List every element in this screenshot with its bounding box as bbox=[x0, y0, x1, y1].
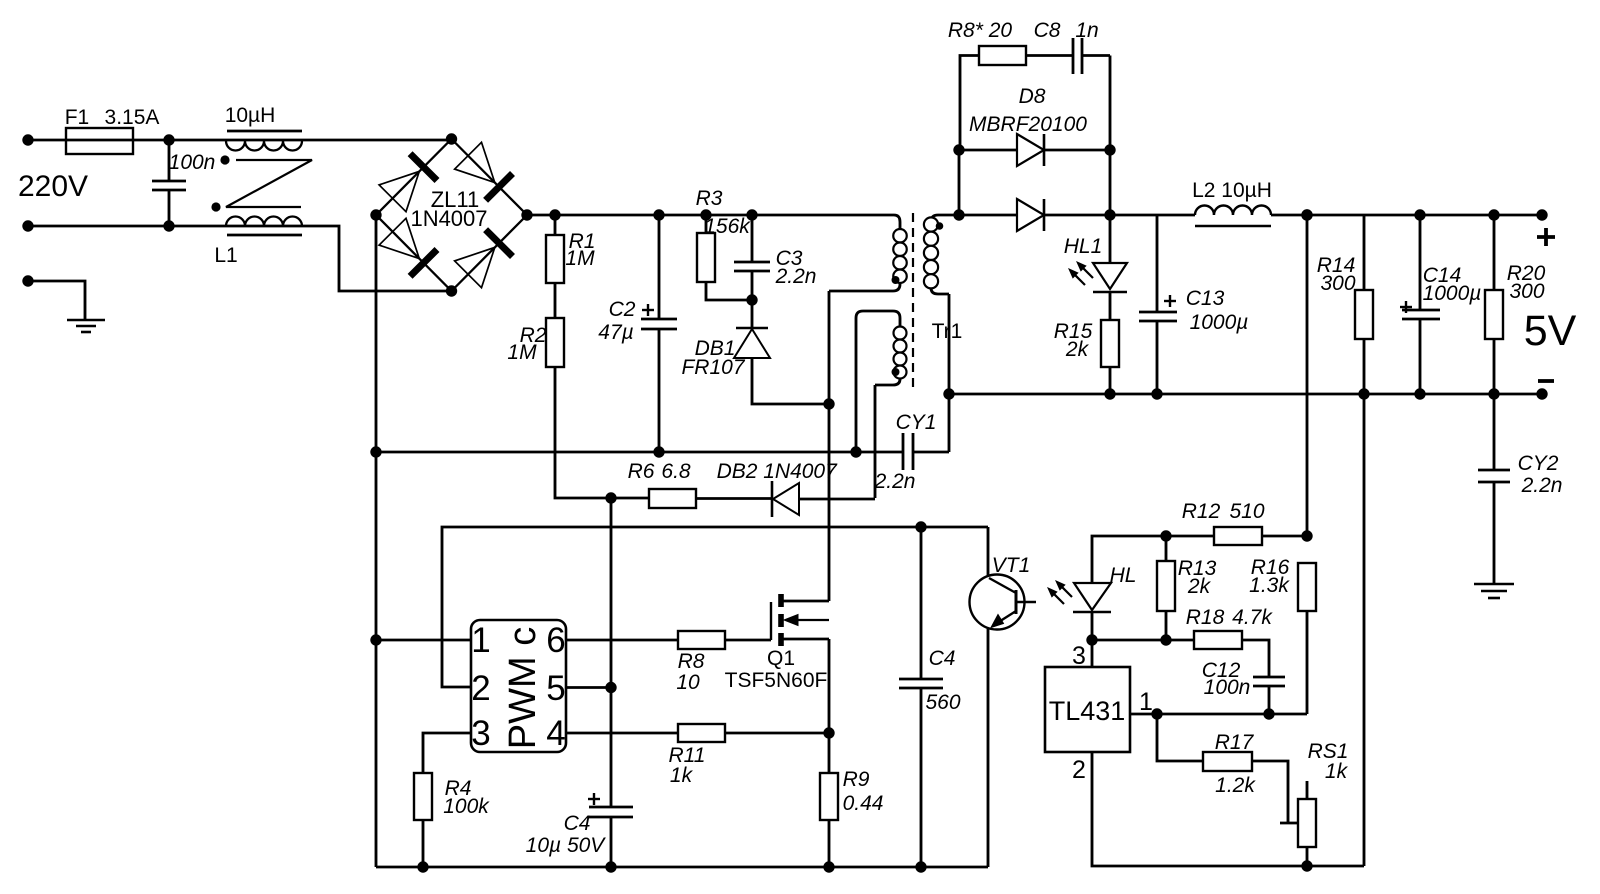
label 1000µ (C14) bbox=[1423, 282, 1482, 305]
label HL1 bbox=[1064, 235, 1103, 258]
capacitor CY1 2.2n bbox=[903, 433, 949, 470]
svg-text:HL: HL bbox=[1110, 564, 1137, 587]
TL431 pin 1 wire bbox=[1130, 713, 1307, 716]
svg-text:L2 10µH: L2 10µH bbox=[1192, 179, 1272, 202]
label L1 bbox=[214, 244, 237, 267]
label 100n (C12) bbox=[1204, 676, 1251, 699]
U1 pin 5 number bbox=[546, 669, 565, 708]
wire R6 to DB2 bbox=[696, 497, 772, 500]
label ZL11 bbox=[431, 187, 480, 212]
node rail/R1 bbox=[549, 209, 560, 220]
wire AC line 2 bbox=[28, 226, 452, 291]
C2 polarity + bbox=[642, 304, 654, 316]
svg-text:PWM c: PWM c bbox=[502, 627, 544, 749]
svg-text:3: 3 bbox=[1072, 642, 1086, 670]
svg-text:R6: R6 bbox=[628, 460, 655, 483]
resistor R11 1k bbox=[678, 724, 829, 742]
transformer Tr1 primary winding bbox=[829, 215, 907, 291]
node AC input phase terminal bbox=[22, 134, 33, 145]
node feedback/C4-560 bbox=[915, 521, 926, 532]
label R8 bbox=[678, 650, 705, 673]
label TL431 bbox=[1049, 696, 1126, 726]
C14 polarity + bbox=[1400, 301, 1412, 313]
resistor R8* 20 (snubber) bbox=[960, 46, 1073, 150]
svg-text:560: 560 bbox=[925, 691, 960, 714]
svg-text:HL1: HL1 bbox=[1064, 235, 1103, 258]
fuse F1 3.15A bbox=[66, 128, 133, 154]
svg-text:1n: 1n bbox=[1075, 19, 1098, 42]
label CY1 bbox=[896, 411, 937, 434]
label R17 bbox=[1215, 731, 1255, 754]
node R6 net / VCC junction bbox=[605, 492, 616, 503]
diode D8 bottom bbox=[940, 199, 1110, 231]
node -5V/R20-CY2 bbox=[1488, 388, 1499, 399]
label 47µ bbox=[598, 321, 633, 344]
wire HL cathode net bbox=[1092, 639, 1194, 642]
node bridge DC plus bbox=[521, 209, 532, 220]
svg-text:C2: C2 bbox=[609, 298, 636, 321]
label HL bbox=[1110, 564, 1137, 587]
resistor R4 100k bbox=[414, 773, 432, 867]
node D8 anode bottom bbox=[953, 209, 964, 220]
label Q1 bbox=[767, 647, 795, 670]
wire HV+ rail bbox=[527, 214, 894, 217]
label PWM c bbox=[502, 627, 544, 749]
node -5V output terminal bbox=[1536, 388, 1547, 399]
svg-text:2.2n: 2.2n bbox=[874, 470, 916, 493]
label C3 bbox=[776, 247, 803, 270]
label R13 bbox=[1178, 557, 1217, 580]
L1 core bbox=[226, 160, 312, 207]
bridge diode D4 (ZL11) bbox=[455, 230, 513, 288]
label 560 bbox=[925, 691, 960, 714]
wire -5V rail bbox=[949, 393, 1542, 396]
TL431 pin 1 number bbox=[1139, 688, 1153, 716]
label 1N4007 (bridge) bbox=[410, 206, 487, 231]
optocoupler light arrows bbox=[1048, 581, 1072, 604]
svg-text:1000µ: 1000µ bbox=[1423, 282, 1482, 305]
node PE terminal bbox=[22, 275, 33, 286]
svg-text:220V: 220V bbox=[18, 170, 88, 203]
node VCC/pin5 bbox=[605, 682, 616, 693]
bridge diode D3 (ZL11) bbox=[379, 218, 437, 276]
diode DB2 1N4007 bbox=[772, 481, 875, 517]
label Tr1 bbox=[932, 320, 963, 343]
label C4 (10µ) bbox=[564, 812, 591, 835]
label R2 bbox=[520, 324, 547, 347]
resistor R15 2k bbox=[1101, 320, 1119, 394]
svg-text:2.2n: 2.2n bbox=[1521, 474, 1563, 497]
U1 pin 6 number bbox=[546, 621, 565, 660]
label R16 bbox=[1251, 556, 1290, 579]
plus output symbol bbox=[1537, 228, 1555, 246]
bridge diode D1 (ZL11) bbox=[379, 154, 437, 212]
resistor R16 1.3k bbox=[1298, 563, 1316, 714]
HL1 light arrows bbox=[1069, 262, 1093, 285]
resistor R1 1M bbox=[546, 215, 564, 318]
node bus/C2 bbox=[653, 446, 664, 457]
wire +5V to R12/R16 bbox=[1306, 215, 1309, 536]
U1 pin 1 number bbox=[471, 621, 490, 660]
L1 phase dot b bbox=[211, 202, 220, 211]
node D8 cathode top bbox=[1104, 144, 1115, 155]
resistor R12 510 bbox=[1214, 527, 1307, 545]
label 2k (R13) bbox=[1187, 575, 1212, 598]
resistor R17 1.2k bbox=[1157, 714, 1297, 823]
node snubber/drain junction bbox=[823, 398, 834, 409]
label F1 bbox=[65, 106, 90, 129]
node HL/pin3 bbox=[1086, 634, 1097, 645]
svg-text:TSF5N60F: TSF5N60F bbox=[725, 669, 828, 692]
TL431 pin 2 wire bbox=[1092, 752, 1364, 866]
node R3/C3 junction bbox=[746, 294, 757, 305]
node bus/left bus bbox=[370, 446, 381, 457]
svg-text:100n: 100n bbox=[1204, 676, 1251, 699]
svg-text:5V: 5V bbox=[1524, 307, 1577, 355]
label RS1 bbox=[1308, 740, 1349, 763]
IC U1 PWM controller box bbox=[471, 620, 566, 752]
svg-text:6.8: 6.8 bbox=[661, 460, 691, 483]
minus output symbol bbox=[1538, 379, 1554, 383]
label DB2 bbox=[717, 460, 758, 483]
svg-text:1.2k: 1.2k bbox=[1215, 774, 1256, 797]
wire AC line 1 (fuse row) bbox=[28, 139, 452, 142]
label 1k (R11) bbox=[670, 764, 694, 787]
svg-text:CY2: CY2 bbox=[1518, 452, 1559, 475]
svg-text:10: 10 bbox=[676, 671, 700, 694]
svg-text:R18: R18 bbox=[1186, 606, 1225, 629]
node R13/R18 bbox=[1160, 634, 1171, 645]
transformer Tr1 secondary winding bbox=[924, 215, 949, 452]
node +5V/C14 bbox=[1414, 209, 1425, 220]
label C4 (560) bbox=[929, 647, 956, 670]
U1 pin 4 number bbox=[546, 714, 565, 753]
svg-text:2: 2 bbox=[471, 669, 490, 708]
resistor R20 300 bbox=[1485, 215, 1503, 394]
node bridge AC top bbox=[446, 133, 457, 144]
label 4.7k bbox=[1232, 606, 1273, 629]
label R8* 20 bbox=[948, 19, 1013, 42]
svg-text:300: 300 bbox=[1320, 272, 1355, 295]
node rail/C2 bbox=[653, 209, 664, 220]
svg-text:10µH: 10µH bbox=[225, 104, 276, 127]
svg-text:0.44: 0.44 bbox=[843, 792, 884, 815]
node +5V/R20 bbox=[1488, 209, 1499, 220]
svg-text:1M: 1M bbox=[565, 247, 595, 270]
label C14 bbox=[1423, 264, 1462, 287]
node bus/aux-top bbox=[850, 446, 861, 457]
svg-text:3: 3 bbox=[471, 714, 490, 753]
resistor R8 10 bbox=[678, 631, 771, 649]
node +5V/R12 line bbox=[1301, 209, 1312, 220]
label C8 bbox=[1034, 19, 1061, 42]
label 300 (R14) bbox=[1320, 272, 1355, 295]
wire primary bottom to drain bbox=[828, 291, 831, 601]
capacitor 100n bbox=[152, 140, 186, 226]
svg-text:1N4007: 1N4007 bbox=[763, 460, 838, 483]
label R12 bbox=[1182, 500, 1221, 523]
wire pin2 feedback net bbox=[442, 527, 988, 687]
inductor L1 winding b bbox=[226, 217, 302, 236]
svg-text:C4: C4 bbox=[564, 812, 591, 835]
node bridge DC minus bbox=[370, 209, 381, 220]
resistor R3 156k bbox=[697, 215, 752, 300]
label 6.8 bbox=[661, 460, 691, 483]
node D8 anode top bbox=[953, 144, 964, 155]
label 1k (RS1) bbox=[1325, 760, 1349, 783]
label 510 bbox=[1229, 500, 1264, 523]
svg-text:2.2n: 2.2n bbox=[775, 265, 817, 288]
resistor R13 2k bbox=[1157, 536, 1175, 640]
label MBRF20100 bbox=[969, 113, 1087, 136]
label 0.44 bbox=[843, 792, 884, 815]
capacitor C13 1000µ bbox=[1139, 215, 1177, 394]
wire pin3 bbox=[423, 733, 471, 773]
svg-text:5: 5 bbox=[546, 669, 565, 708]
label C13 bbox=[1186, 287, 1225, 310]
svg-text:VT1: VT1 bbox=[992, 554, 1031, 577]
node +5V/R14 net line bbox=[1301, 209, 1312, 220]
U1 pin 2 number bbox=[471, 669, 490, 708]
svg-text:156k: 156k bbox=[704, 215, 751, 238]
node secondary/-5V bbox=[943, 388, 954, 399]
IC TL431 bbox=[1045, 667, 1130, 752]
node C4-560/bottom bus bbox=[915, 861, 926, 872]
node R12/R16/+5V line bbox=[1301, 530, 1312, 541]
label L2 10µH bbox=[1192, 179, 1272, 202]
label R18 bbox=[1186, 606, 1225, 629]
wire primary DC- bus bbox=[376, 451, 903, 454]
label 100n bbox=[169, 151, 216, 174]
LED HL1 bbox=[1093, 215, 1127, 320]
resistor RS1 1k bbox=[1298, 781, 1316, 866]
svg-text:6: 6 bbox=[546, 621, 565, 660]
label D8 bbox=[1019, 85, 1046, 108]
label DB1 bbox=[695, 337, 736, 360]
Tr1 primary phase dot bbox=[892, 276, 900, 284]
wire +5V rail (right of L2) bbox=[1271, 214, 1542, 217]
transformer Tr1 core bbox=[912, 213, 914, 391]
L1 phase dot a bbox=[220, 155, 229, 164]
TL431 pin 2 number bbox=[1072, 756, 1086, 784]
node R15/-5V bbox=[1104, 388, 1115, 399]
svg-text:1: 1 bbox=[471, 621, 490, 660]
svg-text:1N4007: 1N4007 bbox=[410, 206, 487, 231]
wire primary minus bus (left vertical) bbox=[375, 215, 378, 867]
svg-text:2k: 2k bbox=[1187, 575, 1212, 598]
label R1 bbox=[569, 230, 596, 253]
svg-text:R8: R8 bbox=[678, 650, 705, 673]
node -5V/C14 bbox=[1414, 388, 1425, 399]
node source/R11 bbox=[823, 727, 834, 738]
ground (output) bbox=[1474, 584, 1514, 598]
TL431 pin 3 wire bbox=[1091, 640, 1094, 667]
node C13/-5V bbox=[1151, 388, 1162, 399]
capacitor C3 2.2n bbox=[734, 215, 770, 300]
wire bottom ground bus bbox=[376, 866, 988, 869]
svg-text:D8: D8 bbox=[1019, 85, 1046, 108]
transformer Tr1 aux winding bbox=[856, 311, 907, 498]
svg-text:10µ 50V: 10µ 50V bbox=[526, 834, 607, 857]
node AC input neutral terminal bbox=[22, 220, 33, 231]
label 1M (R2) bbox=[507, 341, 537, 364]
svg-text:L1: L1 bbox=[214, 244, 237, 267]
resistor R6 6.8 bbox=[649, 489, 696, 508]
svg-text:Tr1: Tr1 bbox=[932, 320, 963, 343]
label 3.15A bbox=[105, 106, 160, 129]
U1 pin 3 number bbox=[471, 714, 490, 753]
LED HL bbox=[1073, 583, 1111, 640]
node rail/R3 bbox=[700, 209, 711, 220]
inductor L1 winding a (10µH) bbox=[226, 131, 302, 151]
label 100k bbox=[443, 795, 490, 818]
node pin1/R17 bbox=[1151, 708, 1162, 719]
svg-text:FR107: FR107 bbox=[681, 356, 745, 379]
node R12/R13 bbox=[1160, 530, 1171, 541]
svg-text:2k: 2k bbox=[1065, 338, 1090, 361]
C4 polarity + bbox=[588, 793, 600, 805]
wire to ground bbox=[28, 281, 85, 319]
capacitor C4 560 bbox=[899, 527, 943, 867]
label 5V bbox=[1524, 307, 1577, 355]
svg-text:100n: 100n bbox=[169, 151, 216, 174]
label R9 bbox=[843, 768, 870, 791]
node bridge AC bottom bbox=[446, 285, 457, 296]
svg-text:100k: 100k bbox=[443, 795, 490, 818]
svg-text:1k: 1k bbox=[670, 764, 694, 787]
label 1.2k bbox=[1215, 774, 1256, 797]
diode DB1 FR107 bbox=[734, 300, 829, 404]
node R14/-5V bbox=[1358, 388, 1369, 399]
label R4 bbox=[445, 777, 472, 800]
node junction line2 / C-100n bbox=[163, 220, 174, 231]
svg-text:2: 2 bbox=[1072, 756, 1086, 784]
transistor VT1 (optocoupler) bbox=[970, 527, 1037, 867]
svg-text:R12: R12 bbox=[1182, 500, 1221, 523]
diode D8 top bbox=[959, 134, 1110, 166]
ground (input PE) bbox=[67, 320, 105, 332]
wire VCC vertical / capacitor C4 10µ 50V bbox=[589, 498, 633, 867]
svg-text:CY1: CY1 bbox=[896, 411, 937, 434]
svg-text:300: 300 bbox=[1509, 280, 1544, 303]
label FR107 bbox=[681, 356, 745, 379]
label R6 bbox=[628, 460, 655, 483]
label 156k bbox=[704, 215, 751, 238]
resistor R18 4.7k bbox=[1194, 631, 1269, 677]
resistor R14 300 bbox=[1355, 215, 1373, 866]
label 10µH bbox=[225, 104, 276, 127]
label CY2 bbox=[1518, 452, 1559, 475]
svg-text:510: 510 bbox=[1229, 500, 1264, 523]
svg-text:1: 1 bbox=[1139, 688, 1153, 716]
capacitor C12 100n bbox=[1253, 677, 1285, 714]
capacitor C8 1n bbox=[1073, 38, 1110, 74]
svg-text:1.3k: 1.3k bbox=[1249, 574, 1290, 597]
label 10µ 50V bbox=[526, 834, 607, 857]
label VT1 bbox=[992, 554, 1031, 577]
label R11 bbox=[669, 744, 706, 767]
node junction line1 / C-100n bbox=[163, 134, 174, 145]
resistor R9 0.44 bbox=[820, 733, 838, 867]
svg-text:Q1: Q1 bbox=[767, 647, 795, 670]
label 10 (R8) bbox=[676, 671, 700, 694]
node D8 cathode/output bbox=[1104, 209, 1115, 220]
wire D8 anodes bbox=[958, 150, 961, 215]
node RS1/ground bus bbox=[1301, 860, 1312, 871]
resistor R2 1M bbox=[546, 318, 648, 498]
label 2.2n (CY1) bbox=[874, 470, 916, 493]
node +5V output terminal bbox=[1536, 209, 1547, 220]
label C2 bbox=[609, 298, 636, 321]
transistor Q1 TSF5N60F bbox=[771, 594, 829, 733]
wire R12 net top bbox=[1092, 536, 1214, 583]
wire D8 cathodes bbox=[1109, 56, 1112, 216]
svg-text:4.7k: 4.7k bbox=[1232, 606, 1273, 629]
capacitor CY2 2.2n bbox=[1478, 394, 1510, 584]
label 300 (R20) bbox=[1509, 280, 1544, 303]
node pin1/left bus bbox=[370, 634, 381, 645]
svg-text:R3: R3 bbox=[696, 187, 723, 210]
Tr1 aux phase dot bbox=[892, 368, 900, 376]
svg-text:C13: C13 bbox=[1186, 287, 1225, 310]
wire pin5 bbox=[566, 686, 611, 689]
Tr1 secondary phase dot bbox=[936, 222, 944, 230]
svg-text:3.15A: 3.15A bbox=[105, 106, 160, 129]
wire pin4 to R11 bbox=[566, 732, 678, 735]
label 2k (R15) bbox=[1065, 338, 1090, 361]
svg-text:4: 4 bbox=[546, 714, 565, 753]
wire pin1 to left bus bbox=[376, 639, 471, 642]
svg-text:MBRF20100: MBRF20100 bbox=[969, 113, 1087, 136]
svg-text:1000µ: 1000µ bbox=[1190, 311, 1249, 334]
svg-text:R9: R9 bbox=[843, 768, 870, 791]
C13 polarity + bbox=[1164, 295, 1176, 307]
svg-text:TL431: TL431 bbox=[1049, 696, 1126, 726]
wire +5V rail (left of L2) bbox=[1110, 214, 1195, 217]
node R9/bottom bus bbox=[823, 861, 834, 872]
svg-text:R8* 20: R8* 20 bbox=[948, 19, 1013, 42]
node rail/C3 bbox=[746, 209, 757, 220]
svg-text:47µ: 47µ bbox=[598, 321, 633, 344]
svg-text:1M: 1M bbox=[507, 341, 537, 364]
TL431 pin 3 number bbox=[1072, 642, 1086, 670]
svg-text:C8: C8 bbox=[1034, 19, 1061, 42]
node pin1/C12 bbox=[1263, 708, 1274, 719]
wire bridge diamond bbox=[376, 139, 527, 291]
label 1M (R1) bbox=[565, 247, 595, 270]
label 1.3k bbox=[1249, 574, 1290, 597]
svg-text:1k: 1k bbox=[1325, 760, 1349, 783]
label 2.2n (CY2) bbox=[1521, 474, 1563, 497]
node R4/bottom bus bbox=[417, 861, 428, 872]
svg-text:F1: F1 bbox=[65, 106, 90, 129]
label 2.2n (C3) bbox=[775, 265, 817, 288]
label 1n (C8) bbox=[1075, 19, 1098, 42]
label 220V bbox=[18, 170, 88, 203]
label R3 bbox=[696, 187, 723, 210]
label C12 bbox=[1202, 659, 1241, 682]
capacitor C2 47µ bbox=[641, 215, 677, 452]
capacitor C14 1000µ bbox=[1402, 215, 1440, 394]
label 1N4007 (DB2) bbox=[763, 460, 838, 483]
wire pin6 to R8 bbox=[566, 639, 678, 642]
svg-text:C4: C4 bbox=[929, 647, 956, 670]
label R15 bbox=[1054, 320, 1093, 343]
label TSF5N60F bbox=[725, 669, 828, 692]
svg-text:DB2: DB2 bbox=[717, 460, 758, 483]
node VCC/bottom bus bbox=[605, 861, 616, 872]
label 1000µ (C13) bbox=[1190, 311, 1249, 334]
